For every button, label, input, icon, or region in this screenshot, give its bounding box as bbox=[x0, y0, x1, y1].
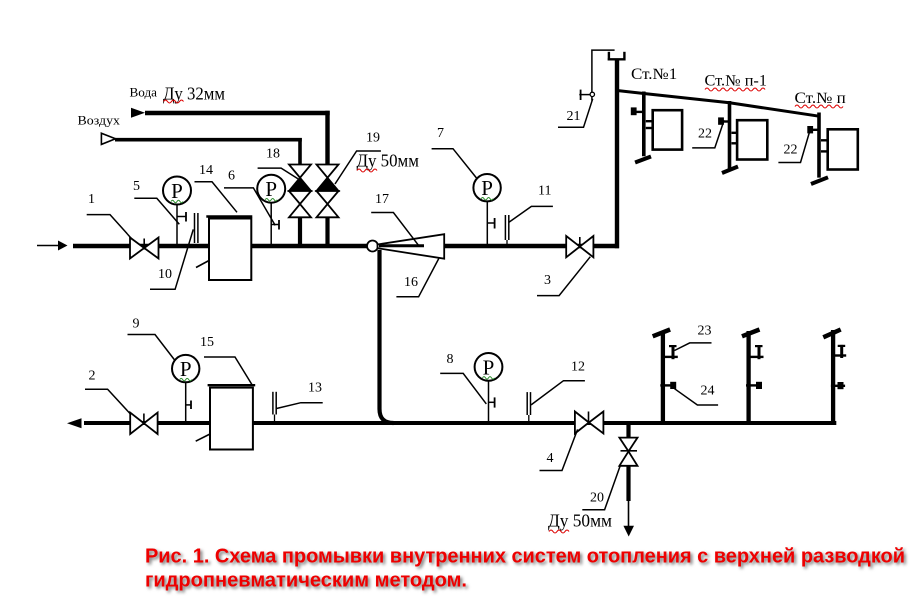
radiator station n bbox=[828, 129, 858, 169]
return riser2 tick 23 bbox=[749, 356, 764, 358]
gauge 6 bbox=[257, 175, 285, 244]
svg-text:P: P bbox=[481, 176, 493, 200]
valve 1 bbox=[130, 238, 159, 259]
ejector cone 16 bbox=[378, 234, 445, 259]
svg-text:15: 15 bbox=[200, 335, 214, 350]
svg-text:8: 8 bbox=[447, 352, 454, 367]
valve 4 bbox=[575, 412, 604, 434]
return riser1 tick 24 bbox=[660, 384, 675, 386]
TEXT-LAYER bbox=[78, 66, 846, 533]
air arrow (open) bbox=[101, 133, 115, 144]
drain arrow bbox=[623, 526, 634, 537]
wire drain below valve 20 bbox=[626, 466, 630, 501]
orifice 10 bbox=[194, 213, 196, 243]
return riser3 top foot bbox=[823, 330, 840, 338]
svg-text:14: 14 bbox=[199, 163, 213, 178]
station n tick valve bbox=[807, 126, 813, 133]
leader label 4 bbox=[540, 429, 578, 470]
valve 19 top bowtie with check bbox=[317, 165, 339, 178]
station1 tick valve bbox=[631, 107, 637, 115]
leader label 12 bbox=[531, 381, 585, 405]
svg-text:7: 7 bbox=[437, 126, 444, 141]
radiator n-1 stubs bbox=[732, 132, 738, 134]
air collector cup at riser top bbox=[608, 52, 626, 61]
gauge 8 bbox=[475, 353, 503, 422]
valve 20 vertical bowtie bbox=[619, 438, 637, 466]
leader label 16 bbox=[396, 259, 438, 297]
svg-text:Ду 50мм: Ду 50мм bbox=[548, 511, 612, 531]
orifice 13 bbox=[272, 392, 274, 415]
leader label 7 bbox=[432, 149, 477, 178]
svg-text:3: 3 bbox=[544, 273, 551, 288]
leader label 15 bbox=[204, 357, 253, 386]
wire drain stub bbox=[626, 423, 630, 438]
svg-text:16: 16 bbox=[404, 275, 418, 290]
leader label 23 bbox=[675, 343, 712, 351]
leader label 1 bbox=[87, 215, 133, 240]
wire return riser 3 bbox=[831, 330, 835, 422]
svg-text:Ду 50мм: Ду 50мм bbox=[357, 151, 419, 171]
valve 3 bbox=[566, 236, 593, 257]
valve 19 lower bowtie bbox=[317, 191, 339, 217]
svg-text:23: 23 bbox=[698, 324, 712, 339]
leader label 8 bbox=[440, 373, 486, 404]
ejector nozzle 17 bbox=[379, 244, 424, 247]
leader label 13 bbox=[277, 403, 323, 409]
wire supply riser up bbox=[615, 59, 619, 248]
return riser1 tick 23 bbox=[663, 356, 678, 358]
station n-1 foot bbox=[722, 167, 738, 174]
wire air line horizontal bbox=[115, 138, 302, 142]
svg-text:11: 11 bbox=[538, 184, 551, 199]
svg-text:P: P bbox=[265, 177, 277, 201]
valve 18 lower bowtie bbox=[289, 191, 311, 217]
svg-text:12: 12 bbox=[571, 360, 585, 375]
wire stub below valve 19 bbox=[325, 217, 329, 246]
valve 18 top bowtie with check bbox=[289, 165, 311, 178]
wire stub below valve 18 bbox=[298, 217, 302, 246]
wire air line drop bbox=[298, 138, 302, 165]
WIRES-LAYER bbox=[73, 59, 836, 527]
leader label 14 bbox=[195, 182, 238, 213]
return riser3 tick 23 bbox=[833, 354, 846, 356]
wire station n-1 riser bbox=[728, 101, 732, 170]
air vent valve 21 bbox=[579, 94, 592, 96]
wire return riser 1 bbox=[661, 331, 665, 422]
svg-text:19: 19 bbox=[366, 131, 380, 146]
svg-text:9: 9 bbox=[133, 317, 140, 332]
return riser3 tick 24 bbox=[831, 385, 845, 387]
leader label 6 bbox=[224, 188, 275, 226]
wire return riser 2 bbox=[746, 331, 750, 422]
svg-text:P: P bbox=[483, 355, 495, 379]
svg-text:1: 1 bbox=[88, 192, 95, 207]
ejector node circle bbox=[367, 241, 378, 252]
leader label 3 bbox=[537, 257, 590, 296]
svg-text:P: P bbox=[180, 357, 192, 381]
svg-text:Ст.№1: Ст.№1 bbox=[631, 66, 677, 83]
leader label 17 bbox=[371, 213, 418, 246]
radiator station n-1 bbox=[737, 120, 767, 159]
radiator station1 bbox=[653, 110, 682, 149]
gauge 7 bbox=[473, 174, 500, 244]
svg-text:20: 20 bbox=[590, 491, 604, 506]
leader label 10 bbox=[150, 229, 193, 289]
caption figure title bbox=[145, 546, 905, 592]
leader label 22a bbox=[692, 120, 724, 148]
svg-text:6: 6 bbox=[228, 169, 235, 184]
leader label 18 bbox=[258, 168, 298, 179]
station n foot bbox=[811, 177, 828, 184]
return riser2 tick 24 bbox=[746, 384, 761, 386]
leader label 21 bbox=[558, 99, 593, 128]
wire supply main line bbox=[73, 244, 619, 248]
wire sloped distribution line bbox=[617, 91, 819, 117]
exit arrow bbox=[67, 418, 82, 428]
wire station1 riser bbox=[642, 92, 646, 157]
orifice 12 bbox=[526, 392, 528, 415]
leader label 2 bbox=[85, 389, 130, 414]
filter box 15 bbox=[210, 388, 253, 450]
svg-text:P: P bbox=[171, 179, 183, 203]
svg-text:Вода: Вода bbox=[130, 85, 158, 100]
svg-text:Ст.№ п: Ст.№ п bbox=[795, 90, 846, 107]
svg-text:гидропневматическим методом.: гидропневматическим методом. bbox=[145, 570, 467, 592]
svg-text:18: 18 bbox=[266, 147, 280, 162]
svg-text:13: 13 bbox=[308, 381, 322, 396]
gauge 9 bbox=[172, 355, 199, 422]
valve 2 bbox=[130, 413, 157, 434]
wire water line horizontal bbox=[145, 111, 330, 115]
svg-text:Ст.№ п-1: Ст.№ п-1 bbox=[705, 73, 768, 90]
svg-text:2: 2 bbox=[89, 369, 96, 384]
radiator station1 stubs bbox=[646, 120, 653, 122]
wire drain thin tail bbox=[628, 501, 630, 527]
gauge 5 bbox=[163, 177, 191, 245]
station1 foot bbox=[635, 157, 651, 163]
svg-text:17: 17 bbox=[375, 192, 389, 207]
station n-1 tick valve bbox=[718, 117, 724, 124]
svg-text:22: 22 bbox=[784, 143, 798, 158]
svg-text:10: 10 bbox=[158, 267, 172, 282]
leader label 22b bbox=[778, 128, 810, 162]
filter box 14 bbox=[209, 219, 251, 281]
orifice 11 bbox=[504, 215, 506, 240]
wire station n riser bbox=[817, 113, 821, 178]
return riser2 top foot bbox=[742, 330, 760, 337]
svg-text:4: 4 bbox=[547, 451, 554, 466]
entry arrow bbox=[37, 245, 58, 247]
radiator n stubs bbox=[821, 139, 828, 141]
svg-text:24: 24 bbox=[701, 384, 715, 399]
wire water line drop bbox=[325, 111, 329, 165]
COMPONENTS-LAYER bbox=[37, 50, 858, 536]
return riser1 top foot bbox=[653, 330, 670, 337]
leader label 19 bbox=[335, 151, 381, 184]
leader label 20 bbox=[582, 465, 620, 510]
svg-text:22: 22 bbox=[698, 127, 712, 142]
leader label 11 bbox=[509, 206, 553, 222]
svg-text:Рис. 1. Схема промывки внутрен: Рис. 1. Схема промывки внутренних систем… bbox=[145, 546, 905, 568]
leader label 24 bbox=[675, 389, 719, 405]
svg-text:Воздух: Воздух bbox=[78, 113, 121, 128]
LEADERS-LAYER bbox=[85, 99, 811, 510]
svg-text:5: 5 bbox=[133, 179, 140, 194]
leader label 5 bbox=[134, 198, 179, 224]
wire return main line bbox=[84, 421, 836, 425]
svg-text:21: 21 bbox=[567, 109, 581, 124]
bracket at riser top bbox=[592, 50, 615, 100]
wire ejector down pipe with bend bbox=[380, 250, 394, 423]
leader label 9 bbox=[128, 335, 176, 361]
water arrow (filled) bbox=[131, 108, 145, 118]
